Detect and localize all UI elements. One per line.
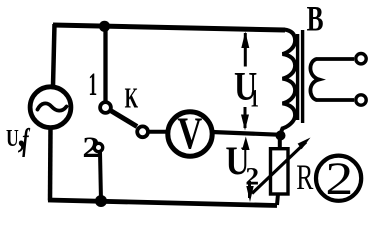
wire top horizontal	[53, 25, 285, 30]
voltmeter U1 circle	[168, 112, 212, 156]
AC source G1 circle	[30, 87, 71, 128]
wire left upper	[53, 24, 55, 86]
wire resistor bottom	[277, 194, 278, 205]
svg-text:K: K	[125, 83, 138, 114]
U1 arrow lower shaft	[244, 107, 247, 128]
resistor arrow shaft	[252, 142, 306, 194]
switch K contact 2 circle	[94, 143, 102, 151]
AC source sine wave	[38, 103, 67, 110]
junction dot bottom	[95, 195, 107, 207]
svg-text:1: 1	[88, 66, 97, 102]
svg-text:f: f	[22, 121, 30, 157]
switch K blade	[111, 111, 138, 127]
U2 arrow lower shaft	[248, 181, 251, 198]
wire bottom horizontal	[48, 200, 277, 206]
svg-text:V: V	[177, 108, 202, 159]
wire contact 2 down	[100, 152, 101, 201]
resistor arrow head	[298, 138, 311, 150]
svg-text:R: R	[296, 157, 313, 197]
transformer core line right	[301, 30, 304, 123]
U1 arrow upper shaft	[244, 33, 247, 67]
wire pivot to voltmeter	[148, 130, 167, 134]
figure number circle	[316, 156, 361, 201]
wire junction to contact 1	[103, 28, 107, 101]
transformer core line left	[296, 34, 299, 120]
switch K pivot circle	[137, 126, 148, 137]
switch K contact 1 circle	[100, 102, 111, 113]
junction dot node right	[276, 131, 286, 141]
svg-text:2: 2	[325, 153, 353, 205]
wire voltmeter to node	[212, 132, 281, 135]
wire node to resistor top	[278, 138, 282, 150]
svg-text:B: B	[307, 0, 324, 39]
U2 arrow upper head	[242, 137, 250, 151]
U2 arrow lower head	[246, 186, 253, 202]
transformer B secondary coil	[310, 59, 354, 100]
U1 arrow upper head	[241, 32, 249, 49]
output terminal lower	[356, 95, 366, 105]
wire left lower	[48, 128, 53, 201]
transformer B primary coil	[281, 30, 296, 134]
resistor R body	[271, 149, 289, 194]
junction dot top	[99, 21, 110, 32]
output terminal upper	[356, 54, 366, 64]
svg-text:1: 1	[250, 85, 259, 113]
U1 arrow lower head	[241, 115, 249, 131]
